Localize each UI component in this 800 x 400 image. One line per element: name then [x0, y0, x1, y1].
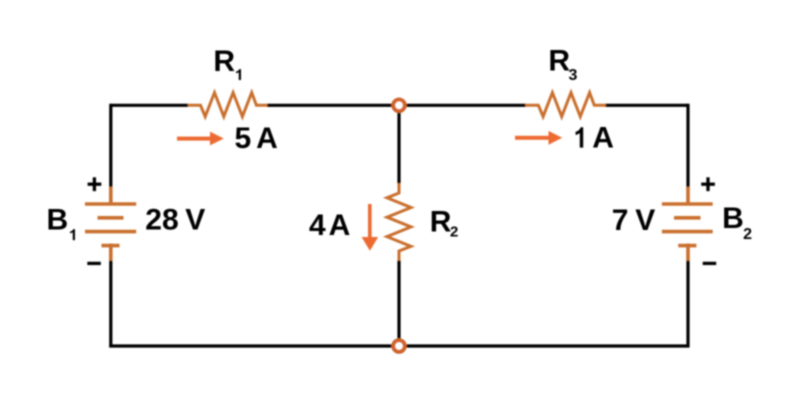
resistor R3 [525, 93, 606, 117]
current arrow 5A [177, 132, 224, 146]
wire top middle-left segment [267, 104, 393, 107]
wire top middle-right segment [405, 104, 526, 107]
svg-text:B: B [47, 204, 69, 237]
battery B1 plus sign [88, 177, 102, 191]
battery B2 minus sign [703, 262, 717, 265]
svg-text:4: 4 [309, 209, 326, 242]
label 1A [576, 127, 584, 147]
wire middle branch lower [397, 261, 400, 341]
battery B2 plus sign [701, 177, 715, 191]
svg-text:R: R [213, 45, 235, 78]
svg-text:3: 3 [569, 67, 578, 84]
svg-text:V: V [185, 204, 205, 237]
wire right side upper [686, 104, 689, 188]
svg-text:5: 5 [235, 122, 252, 155]
wire left side lower [109, 261, 112, 348]
svg-text:2: 2 [450, 224, 458, 241]
svg-text:R: R [548, 45, 570, 78]
svg-text:B: B [722, 202, 744, 235]
battery B1 [85, 187, 136, 261]
wire bottom-left segment [109, 344, 393, 347]
wire left side upper [109, 104, 112, 188]
svg-text:A: A [592, 122, 614, 155]
wire top-left segment [111, 104, 188, 107]
battery B2 [662, 187, 713, 261]
resistor R1 [188, 93, 267, 117]
wire middle branch upper [397, 111, 400, 184]
wire right side lower [686, 261, 689, 348]
resistor R2 [387, 183, 411, 260]
current arrow 4A [362, 204, 379, 251]
wire bottom-right segment [405, 344, 690, 347]
node top [394, 100, 405, 111]
svg-text:7: 7 [612, 204, 629, 237]
wire top-right segment [605, 104, 688, 107]
svg-text:A: A [256, 122, 278, 155]
svg-text:2: 2 [743, 226, 752, 243]
svg-text:V: V [635, 204, 655, 237]
current arrow 1A [515, 131, 562, 145]
svg-text:R: R [430, 205, 452, 238]
svg-text:28: 28 [145, 204, 178, 237]
battery B1 minus sign [87, 262, 101, 265]
svg-text:A: A [329, 209, 351, 242]
node bottom [394, 341, 405, 352]
